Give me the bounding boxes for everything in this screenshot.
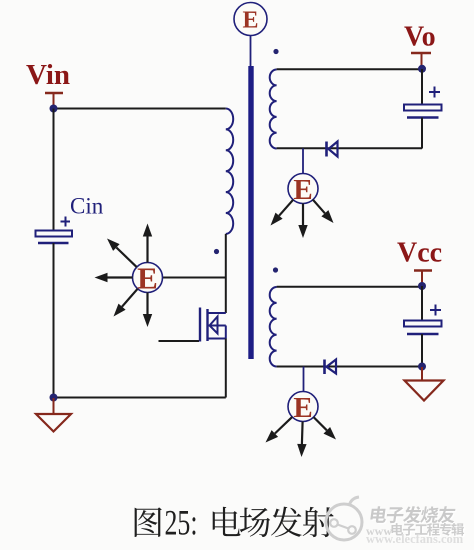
- capacitor Cin: [36, 217, 73, 244]
- wire secondary 1 top: [277, 68, 422, 70]
- E2 arrow left: [95, 273, 133, 282]
- wire bottom rail source to Cin: [54, 397, 226, 399]
- label Vo: [404, 22, 436, 53]
- terminal Vcc: [414, 271, 432, 284]
- E4 arrow down-left: [266, 417, 293, 443]
- wire top rail Vin to primary: [54, 108, 226, 110]
- node junction Vo: [418, 65, 426, 73]
- node junction Vin: [50, 105, 58, 113]
- wire primary bottom to drain: [225, 234, 227, 313]
- wire left rail upper: [53, 109, 55, 232]
- terminal Vin: [45, 93, 63, 107]
- ground input: [36, 398, 71, 432]
- svg-text:E: E: [242, 8, 258, 34]
- svg-text:25:: 25:: [165, 503, 198, 543]
- ground Vcc output: [405, 367, 444, 401]
- E4 arrow down-right: [314, 417, 336, 439]
- svg-text:Vin: Vin: [26, 59, 70, 91]
- capacitor Co: [404, 87, 442, 118]
- wire Vcc down to capacitor: [421, 286, 423, 321]
- E-field probe E2 at switch node: [133, 261, 163, 296]
- svg-text:Vo: Vo: [404, 22, 436, 53]
- node phasing dot secondary 1: [273, 49, 278, 54]
- transformer T1 secondary winding 1: [270, 70, 277, 149]
- wire secondary 2 top: [277, 286, 422, 288]
- svg-text:E: E: [293, 174, 312, 206]
- wire secondary 1 bottom: [277, 147, 422, 149]
- node Vin label: [26, 59, 70, 91]
- watermark url: [366, 532, 464, 546]
- transistor Q1 gate lead: [159, 340, 200, 342]
- E3 arrow down-left: [271, 200, 294, 226]
- wire left rail lower: [53, 243, 55, 398]
- svg-text:Cin: Cin: [70, 194, 104, 219]
- transformer core: [248, 66, 253, 359]
- wire secondary 2 bottom: [277, 366, 422, 368]
- E2 arrow down: [143, 293, 152, 328]
- svg-text:E: E: [137, 261, 158, 296]
- wire E2 probe to drain node: [163, 277, 226, 279]
- svg-text:www.elecfans.com: www.elecfans.com: [366, 532, 464, 546]
- E-field probe E3: [288, 149, 318, 207]
- watermark text line 2: [366, 524, 392, 538]
- label Vcc: [397, 238, 442, 269]
- E2 arrow up-left: [107, 239, 137, 268]
- E-field probe E4: [288, 367, 318, 425]
- diode D1: [327, 142, 338, 157]
- transformer T1 secondary winding 2: [270, 287, 277, 366]
- node phasing dot primary: [214, 249, 219, 254]
- node junction ground: [50, 394, 58, 402]
- wire source to bottom rail: [225, 339, 227, 398]
- terminal Vo: [411, 53, 431, 66]
- wire capacitor Co to bottom: [421, 118, 423, 149]
- diode D2: [325, 360, 337, 375]
- caption figure 25: [135, 503, 334, 543]
- capacitor Cvcc: [404, 305, 442, 335]
- node junction Vcc: [418, 282, 426, 290]
- E2 arrow down-left: [114, 289, 138, 317]
- watermark text line 1: [370, 506, 458, 524]
- node junction Vcc ground: [418, 363, 426, 371]
- E3 arrow down-right: [313, 200, 334, 223]
- transformer T1 primary winding: [226, 109, 233, 234]
- label Cin: [70, 194, 104, 219]
- svg-text:E: E: [293, 392, 312, 424]
- wire Vo down to capacitor: [421, 69, 423, 105]
- watermark logo: [326, 497, 362, 540]
- E3 arrow down: [298, 204, 307, 239]
- E-field probe E1 top: [234, 3, 267, 67]
- E2 arrow up: [143, 224, 152, 263]
- wire capacitor Cvcc to bottom: [421, 334, 423, 367]
- svg-text:Vcc: Vcc: [397, 238, 442, 269]
- node phasing dot secondary 2: [273, 267, 278, 272]
- E4 arrow down: [297, 422, 306, 458]
- transistor Q1 MOSFET body: [200, 308, 226, 342]
